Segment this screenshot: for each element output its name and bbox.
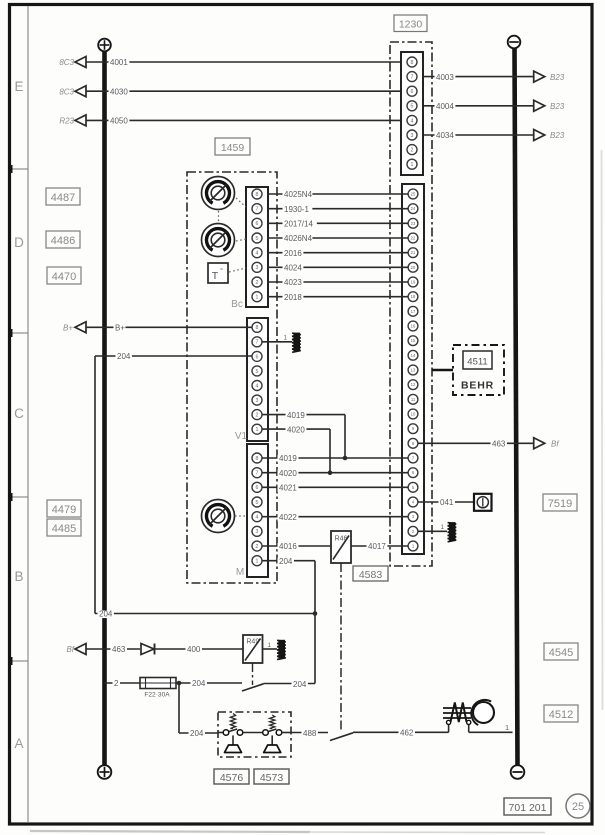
svg-text:6: 6: [256, 485, 259, 491]
svg-text:6: 6: [256, 221, 259, 227]
svg-text:4019: 4019: [279, 454, 297, 463]
svg-text:2: 2: [256, 544, 259, 550]
svg-text:463: 463: [112, 645, 126, 654]
svg-text:25: 25: [572, 801, 584, 813]
svg-text:7: 7: [256, 471, 259, 477]
svg-text:5: 5: [256, 236, 259, 242]
svg-text:4050: 4050: [110, 117, 128, 126]
svg-text:Bf: Bf: [551, 440, 559, 449]
svg-text:041: 041: [440, 498, 454, 507]
svg-text:A: A: [14, 736, 23, 751]
svg-text:4: 4: [256, 251, 259, 257]
svg-text:5: 5: [256, 500, 259, 506]
svg-text:462: 462: [400, 729, 414, 738]
svg-text:5: 5: [256, 369, 259, 375]
svg-text:4017: 4017: [368, 542, 386, 551]
svg-text:204: 204: [192, 679, 206, 688]
svg-text:17: 17: [411, 309, 416, 314]
svg-text:16: 16: [411, 324, 416, 329]
svg-text:C: C: [14, 406, 24, 421]
svg-text:3: 3: [256, 529, 259, 535]
svg-text:4573: 4573: [260, 772, 284, 784]
svg-text:6: 6: [256, 354, 259, 360]
svg-text:4025N4: 4025N4: [284, 190, 313, 199]
svg-text:3: 3: [411, 133, 414, 139]
svg-text:4026N4: 4026N4: [284, 234, 313, 243]
svg-text:12: 12: [411, 382, 416, 387]
svg-text:4486: 4486: [51, 235, 75, 247]
svg-text:3: 3: [256, 265, 259, 271]
svg-text:4485: 4485: [52, 523, 76, 535]
svg-text:F22·30A: F22·30A: [144, 692, 170, 699]
svg-text:22: 22: [411, 236, 416, 241]
svg-text:2: 2: [114, 679, 119, 688]
svg-text:23: 23: [411, 221, 416, 226]
svg-text:1: 1: [256, 427, 259, 433]
svg-text:2: 2: [256, 280, 259, 286]
svg-text:B: B: [14, 569, 23, 584]
svg-text:400: 400: [187, 645, 201, 654]
svg-text:Bc: Bc: [231, 299, 243, 310]
svg-text:7: 7: [256, 340, 259, 346]
svg-text:1930-1: 1930-1: [284, 205, 309, 214]
svg-text:B23: B23: [550, 131, 565, 140]
svg-text:4021: 4021: [279, 484, 297, 493]
svg-text:2: 2: [256, 412, 259, 418]
svg-text:4545: 4545: [549, 647, 573, 659]
svg-text:4512: 4512: [549, 709, 573, 721]
svg-text:4583: 4583: [359, 569, 383, 581]
svg-text:4023: 4023: [284, 278, 302, 287]
svg-text:2016: 2016: [284, 249, 302, 258]
svg-text:2017/14: 2017/14: [284, 220, 313, 229]
svg-text:1: 1: [505, 725, 509, 732]
svg-text:204: 204: [190, 729, 204, 738]
svg-text:4016: 4016: [279, 542, 297, 551]
svg-text:4479: 4479: [52, 504, 76, 516]
svg-text:V1: V1: [235, 431, 248, 442]
svg-text:8C3: 8C3: [59, 87, 74, 96]
svg-text:2: 2: [411, 147, 414, 153]
svg-text:13: 13: [411, 368, 416, 373]
svg-text:4004: 4004: [436, 102, 454, 111]
svg-text:4020: 4020: [287, 425, 305, 434]
svg-text:4020: 4020: [279, 469, 297, 478]
svg-text:2018: 2018: [284, 293, 302, 302]
svg-text:3: 3: [256, 398, 259, 404]
svg-text:1: 1: [256, 295, 259, 301]
svg-text:488: 488: [303, 729, 317, 738]
svg-text:18: 18: [411, 294, 416, 299]
svg-text:8: 8: [256, 456, 259, 462]
svg-text:1: 1: [256, 559, 259, 565]
svg-text:4511: 4511: [467, 357, 487, 368]
svg-text:19: 19: [411, 280, 416, 285]
svg-text:B23: B23: [550, 102, 565, 111]
svg-text:B+: B+: [115, 324, 125, 333]
svg-text:15: 15: [411, 338, 416, 343]
svg-text:4470: 4470: [52, 271, 76, 283]
svg-text:8: 8: [411, 60, 414, 66]
svg-text:1459: 1459: [221, 142, 245, 154]
svg-text:M: M: [236, 567, 244, 578]
svg-text:4: 4: [411, 118, 414, 124]
svg-text:R23: R23: [59, 117, 74, 126]
svg-text:8: 8: [256, 325, 259, 331]
svg-text:BEHR: BEHR: [461, 380, 494, 392]
svg-text:°: °: [220, 267, 223, 275]
svg-text:25: 25: [411, 192, 416, 197]
svg-text:4034: 4034: [436, 131, 454, 140]
svg-text:4487: 4487: [51, 192, 75, 204]
svg-text:8: 8: [256, 192, 259, 198]
svg-text:7: 7: [411, 74, 414, 80]
svg-text:4001: 4001: [110, 58, 128, 67]
svg-text:D: D: [14, 235, 24, 250]
svg-text:4: 4: [256, 383, 259, 389]
svg-text:4: 4: [256, 515, 259, 521]
svg-text:7: 7: [256, 207, 259, 213]
svg-text:B23: B23: [550, 73, 565, 82]
svg-text:Bf: Bf: [66, 645, 74, 654]
svg-text:1230: 1230: [399, 18, 423, 30]
svg-text:204: 204: [99, 610, 113, 619]
svg-text:8C3: 8C3: [59, 58, 74, 67]
svg-text:4030: 4030: [110, 87, 128, 96]
svg-text:24: 24: [411, 206, 416, 211]
svg-text:4024: 4024: [284, 264, 302, 273]
svg-text:204: 204: [293, 680, 307, 689]
svg-text:B+: B+: [63, 324, 73, 333]
svg-text:E: E: [14, 79, 23, 94]
svg-text:7519: 7519: [548, 498, 572, 510]
svg-text:6: 6: [411, 89, 414, 95]
svg-text:14: 14: [411, 353, 416, 358]
svg-text:4022: 4022: [279, 513, 297, 522]
svg-text:21: 21: [411, 250, 416, 255]
svg-text:4019: 4019: [287, 411, 305, 420]
svg-text:4003: 4003: [436, 73, 454, 82]
svg-text:701 201: 701 201: [509, 802, 547, 814]
svg-text:204: 204: [279, 557, 293, 566]
svg-text:1: 1: [411, 162, 414, 168]
svg-text:11: 11: [411, 397, 416, 402]
svg-text:20: 20: [411, 265, 416, 270]
svg-text:10: 10: [411, 412, 416, 417]
svg-text:463: 463: [492, 440, 506, 449]
svg-text:204: 204: [117, 352, 131, 361]
svg-text:4576: 4576: [220, 772, 244, 784]
svg-text:5: 5: [411, 104, 414, 110]
svg-text:T: T: [212, 270, 219, 282]
